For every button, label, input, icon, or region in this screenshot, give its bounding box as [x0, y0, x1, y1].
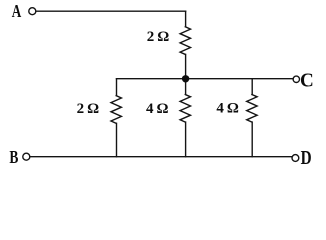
wire A to top corner	[36, 10, 185, 12]
wire resistor R3 to bottom rail	[185, 122, 187, 157]
svg-text:2 Ω: 2 Ω	[77, 101, 100, 117]
middle rail wire to C	[117, 78, 294, 80]
svg-text:C: C	[300, 69, 314, 91]
terminal D	[292, 155, 299, 162]
svg-text:A: A	[12, 1, 21, 21]
resistor R1 2ohm zigzag	[180, 27, 190, 55]
wire corner down to resistor R2	[116, 79, 118, 96]
svg-text:D: D	[301, 147, 312, 169]
wire resistor R2 to bottom rail	[116, 123, 118, 156]
svg-text:B: B	[9, 147, 18, 167]
terminal C	[293, 76, 299, 82]
terminal A	[29, 8, 36, 15]
svg-text:4 Ω: 4 Ω	[216, 100, 239, 116]
svg-text:4 Ω: 4 Ω	[146, 101, 169, 117]
svg-text:2 Ω: 2 Ω	[147, 29, 170, 45]
wire resistor R4 to bottom rail	[251, 122, 253, 157]
resistor R4 4ohm zigzag	[247, 95, 257, 123]
wire resistor R1 to node	[185, 54, 187, 78]
wire node down to resistor R3	[185, 79, 187, 95]
resistor R2 2ohm zigzag	[111, 96, 121, 124]
terminal B	[23, 153, 30, 160]
junction node dot	[182, 75, 189, 82]
wire top corner down to resistor R1	[185, 11, 187, 27]
bottom rail wire B to D	[30, 156, 292, 158]
resistor R3 4ohm zigzag	[180, 95, 190, 123]
wire rail down to resistor R4	[251, 79, 253, 95]
